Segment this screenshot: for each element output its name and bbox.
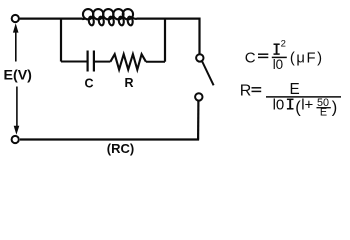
svg-text:l0: l0 bbox=[273, 57, 283, 72]
wire resistor to box right bbox=[146, 61, 165, 63]
arrow down bbox=[14, 87, 20, 135]
wire branch left bbox=[61, 61, 87, 63]
switch contact bottom bbox=[195, 93, 202, 100]
wire switch to bottom bbox=[197, 101, 199, 140]
capacitor C bbox=[88, 51, 94, 72]
svg-text:E: E bbox=[320, 106, 327, 118]
switch contact top bbox=[196, 54, 203, 61]
wire top right segment bbox=[137, 18, 200, 20]
svg-text:C: C bbox=[245, 50, 256, 67]
svg-text:): ) bbox=[332, 98, 338, 116]
switch blade bbox=[202, 62, 213, 86]
svg-text:E: E bbox=[290, 81, 300, 98]
svg-text:(RC): (RC) bbox=[107, 141, 134, 156]
inductor coil bbox=[82, 9, 137, 26]
wire bottom bbox=[20, 138, 199, 140]
arrow up bbox=[13, 23, 19, 61]
wire capacitor to resistor bbox=[95, 61, 111, 63]
svg-text:l+: l+ bbox=[301, 97, 313, 114]
terminal top-left bbox=[12, 15, 19, 22]
formula C = I^2/10 (uF) bbox=[245, 39, 324, 72]
svg-text:2: 2 bbox=[281, 39, 286, 50]
svg-text:(μF): (μF) bbox=[290, 51, 324, 67]
svg-text:R: R bbox=[240, 83, 252, 100]
formula R = E / (10I(1+50/E)) bbox=[240, 81, 341, 118]
wire top left segment bbox=[20, 18, 83, 20]
svg-text:R: R bbox=[125, 76, 134, 90]
resistor R bbox=[110, 54, 145, 69]
node box right bbox=[164, 18, 166, 62]
svg-text:E(V): E(V) bbox=[4, 67, 33, 83]
node box left bbox=[60, 18, 62, 62]
svg-text:C: C bbox=[85, 77, 94, 91]
wire switch drop bbox=[198, 18, 200, 54]
terminal bottom-left bbox=[12, 136, 19, 143]
svg-text:l0: l0 bbox=[273, 97, 285, 114]
